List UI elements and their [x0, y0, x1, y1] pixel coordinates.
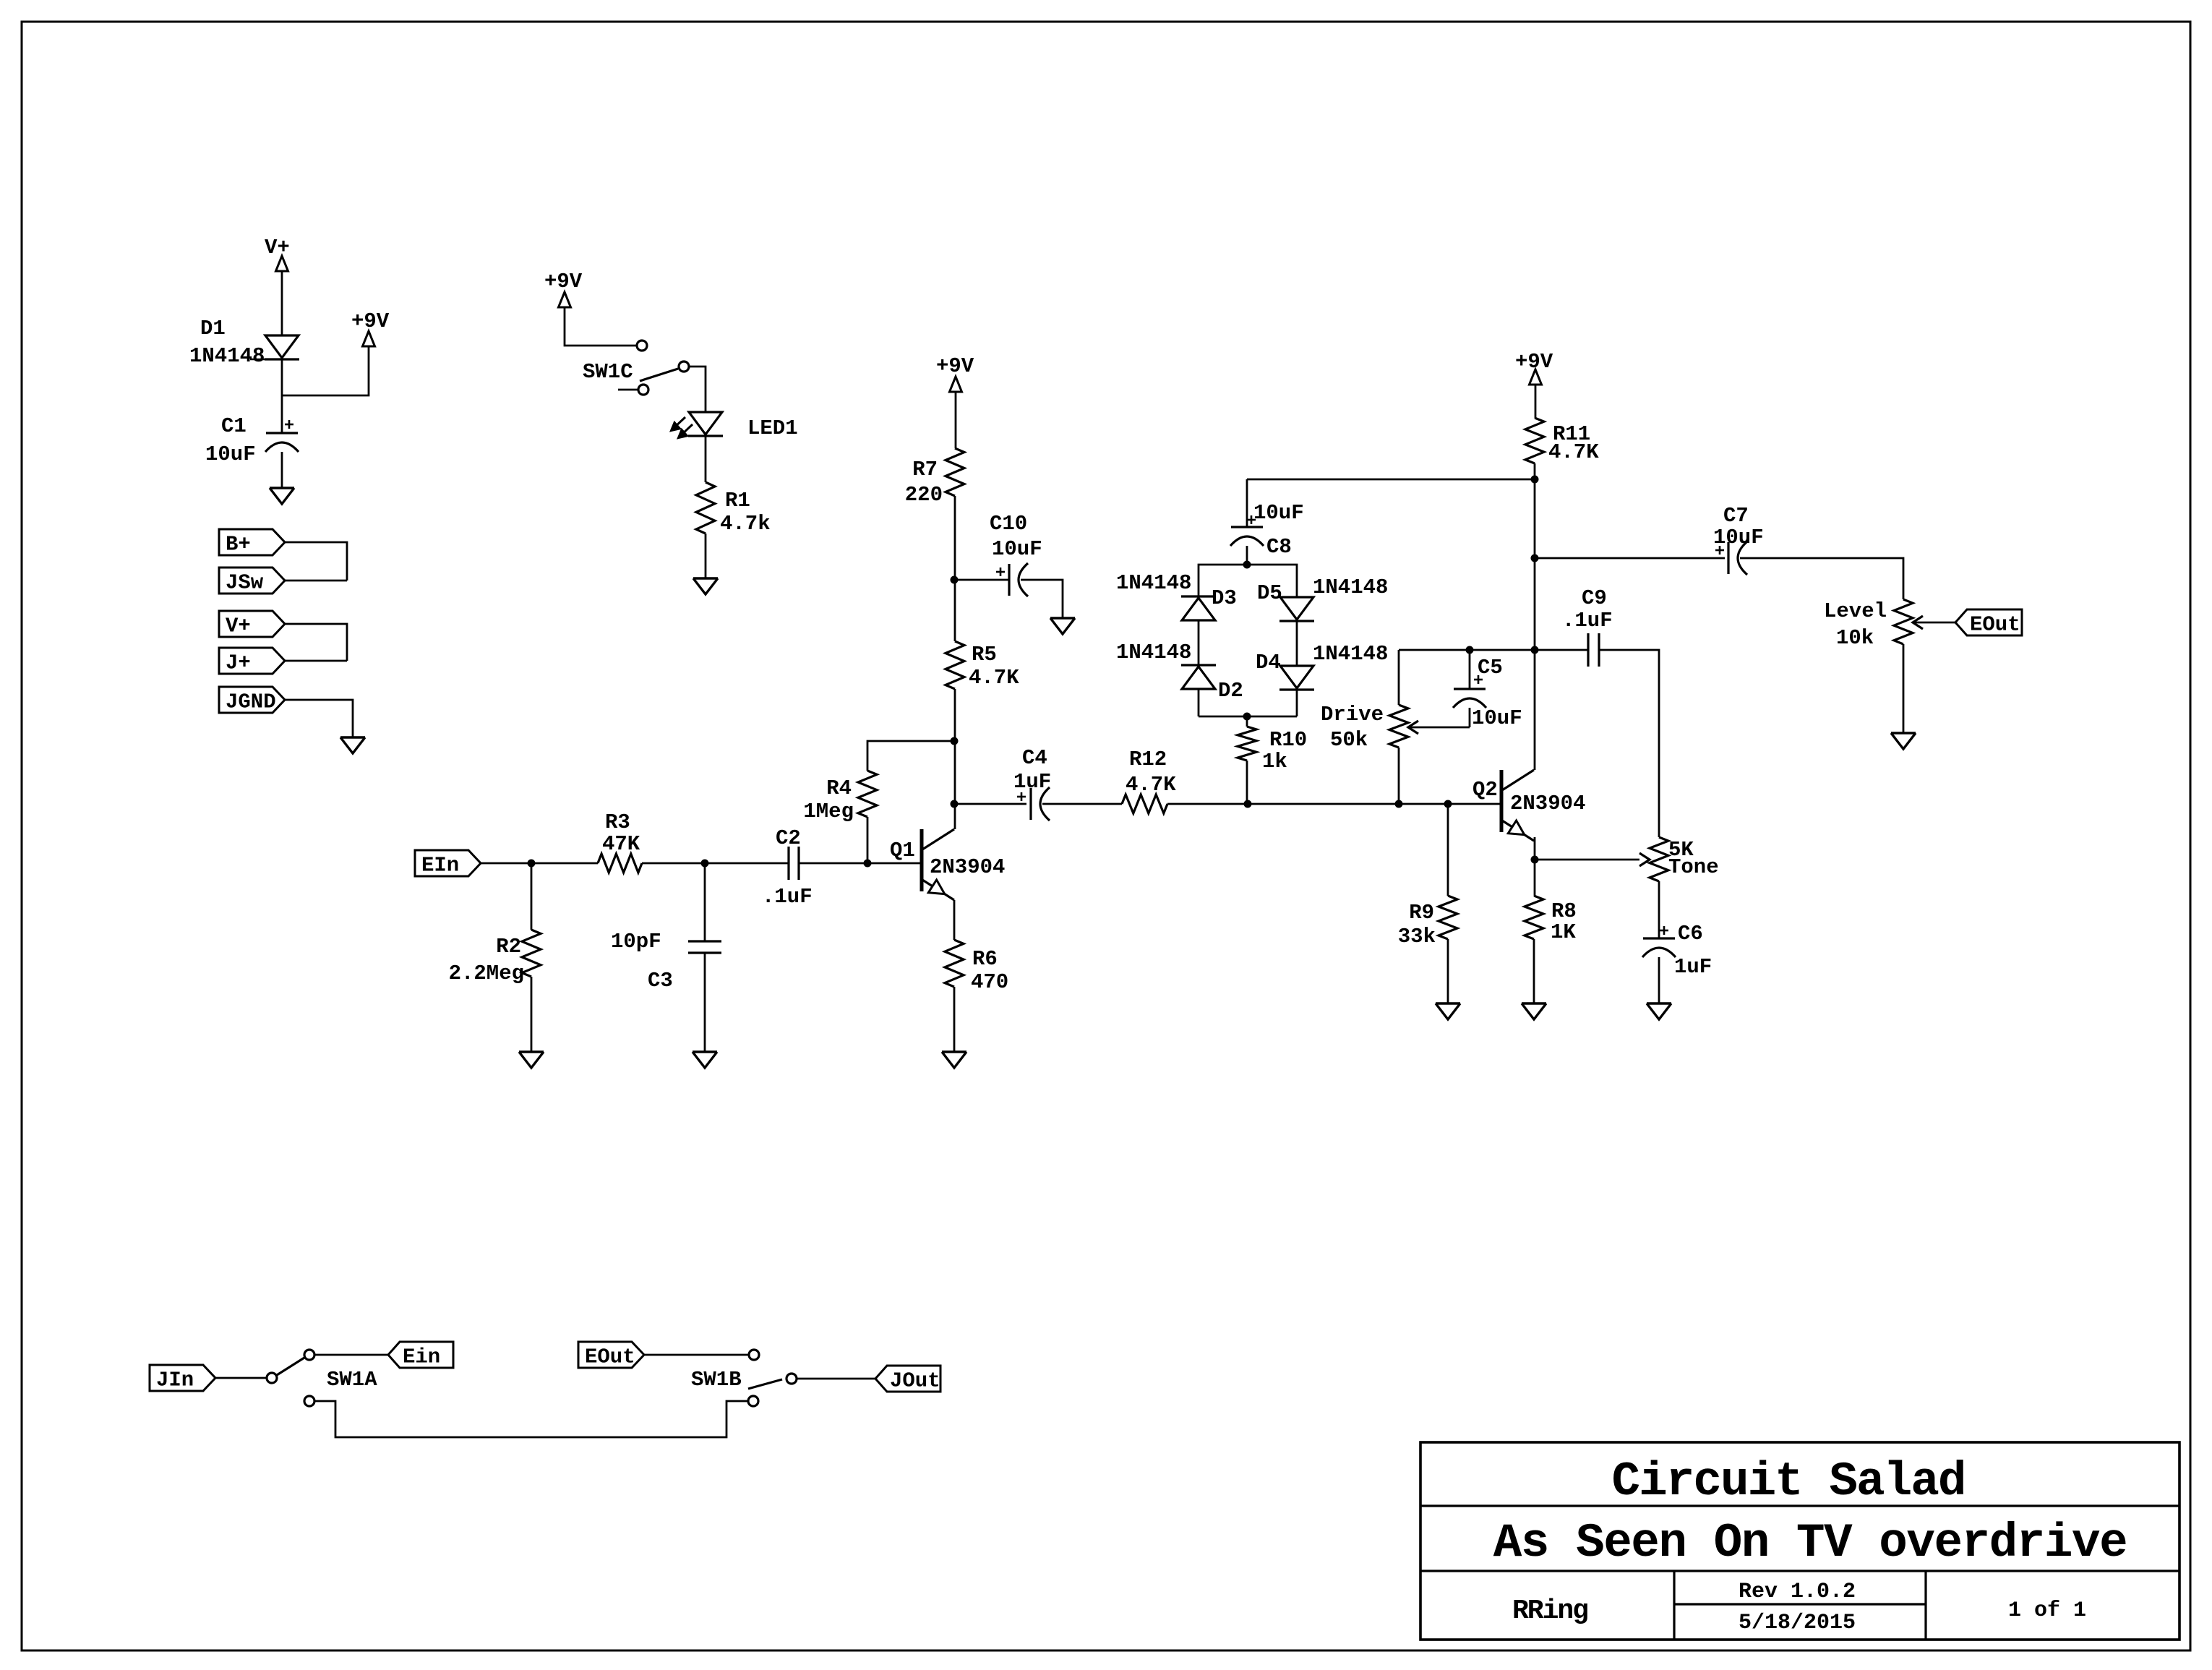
wire	[1199, 716, 1297, 718]
label R10	[1269, 728, 1307, 752]
label R5	[972, 643, 997, 667]
power symbol V+	[265, 236, 290, 271]
junction	[1243, 713, 1251, 721]
svg-text:R7: R7	[912, 458, 938, 481]
wire	[281, 359, 283, 433]
junction	[1444, 800, 1452, 808]
capacitor C3	[688, 941, 721, 953]
wire	[281, 271, 283, 335]
svg-text:1N4148: 1N4148	[189, 344, 265, 368]
wire	[1246, 716, 1248, 727]
capacitor C4	[1017, 787, 1050, 821]
svg-text:10uF: 10uF	[1253, 501, 1304, 525]
net flag B+	[219, 529, 285, 557]
wire	[1469, 650, 1471, 689]
junction	[951, 576, 959, 584]
net flag JIn	[150, 1365, 215, 1392]
svg-text:EIn: EIn	[421, 854, 459, 878]
junction	[1244, 800, 1252, 808]
wire	[1198, 620, 1200, 665]
wire	[799, 862, 922, 865]
junction	[1531, 856, 1539, 864]
junction	[1531, 476, 1539, 484]
label R3 value 47K	[602, 832, 640, 856]
wire	[285, 580, 347, 582]
svg-text:B+: B+	[226, 533, 251, 557]
switch SW1C	[618, 341, 689, 395]
ground	[1522, 1003, 1546, 1019]
resistor R10	[1238, 727, 1256, 761]
resistor R8	[1525, 896, 1543, 939]
svg-text:JGND: JGND	[226, 690, 276, 714]
diode D3	[1181, 596, 1216, 620]
label R1	[725, 489, 750, 513]
wire	[1167, 803, 1248, 805]
svg-text:JSw: JSw	[226, 571, 264, 595]
svg-text:47K: 47K	[602, 832, 640, 856]
wire	[704, 953, 706, 1052]
svg-text:R12: R12	[1129, 748, 1167, 771]
revision Rev 1.0.2	[1739, 1580, 1856, 1604]
wire	[1535, 385, 1537, 418]
wire	[1534, 860, 1536, 896]
net flag EOut	[1955, 609, 2022, 637]
net flag Ein	[388, 1342, 453, 1369]
svg-text:5/18/2015: 5/18/2015	[1739, 1611, 1856, 1635]
label R3	[605, 810, 630, 834]
label C4	[1022, 746, 1047, 770]
label C2 value .1uF	[762, 885, 813, 909]
label Level value 10k	[1836, 626, 1874, 650]
net flag JGND	[219, 687, 285, 714]
svg-text:C6: C6	[1678, 922, 1703, 946]
junction	[701, 860, 709, 868]
wire	[954, 803, 1026, 805]
svg-text:+9V: +9V	[544, 270, 583, 294]
svg-text:+9V: +9V	[351, 309, 390, 333]
svg-text:SW1A: SW1A	[327, 1368, 377, 1392]
label Q1	[890, 839, 915, 862]
wire	[314, 1354, 388, 1356]
wire	[1399, 649, 1535, 651]
junction	[864, 860, 872, 868]
svg-text:C2: C2	[776, 826, 801, 850]
wire	[285, 624, 347, 661]
svg-text:D5: D5	[1257, 581, 1282, 605]
ground	[1436, 1003, 1460, 1019]
wire	[643, 1354, 749, 1356]
LED LED1	[671, 412, 723, 438]
wire	[1658, 881, 1660, 938]
date 5/18/2015	[1739, 1611, 1856, 1635]
wire	[1246, 479, 1248, 527]
wire	[565, 307, 637, 346]
svg-text:10uF: 10uF	[1472, 706, 1522, 730]
label D1	[200, 317, 226, 341]
wire	[1913, 622, 1955, 624]
wire	[705, 534, 707, 578]
wire	[215, 1377, 267, 1379]
net flag V+	[219, 611, 285, 638]
svg-text:RRing: RRing	[1512, 1596, 1587, 1627]
svg-text:470: 470	[971, 970, 1008, 994]
label Drive value 50k	[1330, 728, 1368, 752]
svg-text:C7: C7	[1723, 504, 1749, 528]
wire	[954, 689, 956, 829]
svg-text:1uF: 1uF	[1013, 770, 1051, 794]
svg-text:.1uF: .1uF	[762, 885, 813, 909]
svg-text:R3: R3	[605, 810, 630, 834]
svg-text:4.7K: 4.7K	[969, 666, 1019, 690]
svg-text:D3: D3	[1212, 586, 1237, 610]
wire	[705, 862, 789, 865]
label R9 value 33k	[1398, 925, 1436, 949]
net flag JOut	[875, 1366, 940, 1393]
wire	[867, 817, 869, 863]
wire	[1246, 546, 1248, 565]
svg-text:C4: C4	[1022, 746, 1047, 770]
wire	[1296, 621, 1298, 666]
label R7 value 220	[905, 483, 943, 507]
label R6 value 470	[971, 970, 1008, 994]
label C2	[776, 826, 801, 850]
resistor R1	[696, 482, 715, 534]
label R6	[972, 947, 998, 971]
wire	[282, 346, 369, 395]
label D4 value 1N4148	[1313, 642, 1388, 666]
svg-text:SW1B: SW1B	[691, 1368, 742, 1392]
wire	[531, 977, 533, 1052]
label C7 value 10uF	[1713, 526, 1764, 549]
svg-text:4.7K: 4.7K	[1126, 773, 1176, 797]
svg-text:50k: 50k	[1330, 728, 1368, 752]
wire	[281, 452, 283, 488]
label D3	[1212, 586, 1237, 610]
svg-text:Q2: Q2	[1472, 778, 1498, 802]
wire	[1535, 649, 1588, 651]
resistor R3	[598, 854, 642, 873]
wire	[867, 741, 954, 771]
svg-text:1K: 1K	[1551, 920, 1576, 944]
power symbol +9V	[544, 270, 583, 307]
label R11	[1553, 422, 1590, 446]
svg-text:.1uF: .1uF	[1562, 609, 1613, 633]
wire	[1199, 565, 1297, 597]
capacitor C7	[1715, 541, 1747, 575]
svg-text:10uF: 10uF	[205, 442, 256, 466]
junction	[1243, 561, 1251, 569]
capacitor C10	[996, 563, 1028, 596]
wire	[705, 436, 707, 482]
capacitor C2	[789, 847, 799, 880]
label C9 value .1uF	[1562, 609, 1613, 633]
capacitor C9	[1588, 633, 1599, 667]
label R11 value 4.7K	[1548, 440, 1599, 464]
power symbol +9V	[351, 309, 390, 346]
wire	[1535, 557, 1725, 560]
capacitor C6	[1642, 926, 1676, 957]
wire	[689, 367, 706, 412]
svg-text:4.7K: 4.7K	[1548, 440, 1599, 464]
svg-text:Tone: Tone	[1668, 855, 1719, 879]
transistor Q1	[922, 829, 954, 900]
subtitle text As Seen On TV overdrive	[1493, 1516, 2127, 1570]
wire	[797, 1378, 875, 1380]
svg-text:EOut: EOut	[585, 1345, 635, 1369]
junction	[1531, 554, 1539, 562]
svg-text:Drive: Drive	[1321, 703, 1384, 727]
wire	[1469, 708, 1471, 727]
svg-text:R4: R4	[826, 776, 852, 800]
svg-text:LED1: LED1	[747, 416, 798, 440]
svg-text:1N4148: 1N4148	[1313, 642, 1388, 666]
label C3 value 10pF	[611, 930, 661, 954]
wire	[1296, 690, 1298, 716]
label C10 value 10uF	[992, 537, 1042, 561]
title text Circuit Salad	[1612, 1455, 1965, 1509]
wire	[1246, 761, 1248, 804]
svg-text:1N4148: 1N4148	[1116, 571, 1191, 595]
junction	[528, 860, 536, 868]
title block frame	[1420, 1442, 2179, 1640]
svg-text:D1: D1	[200, 317, 226, 341]
label R7	[912, 458, 938, 481]
resistor R9	[1439, 896, 1457, 939]
capacitor C5	[1453, 675, 1486, 708]
svg-text:33k: 33k	[1398, 925, 1436, 949]
author RRing	[1512, 1596, 1587, 1627]
svg-text:2N3904: 2N3904	[1510, 792, 1585, 815]
label C8 value 10uF	[1253, 501, 1304, 525]
wire	[953, 900, 956, 940]
ground	[340, 737, 365, 753]
wire	[953, 987, 956, 1052]
junction	[1466, 646, 1474, 654]
label R2	[496, 935, 521, 959]
wire	[1399, 803, 1501, 805]
label D5 value 1N4148	[1313, 575, 1388, 599]
wire	[531, 863, 533, 930]
svg-text:C3: C3	[648, 969, 673, 993]
svg-text:10pF: 10pF	[611, 930, 661, 954]
label Drive	[1321, 703, 1384, 727]
wire	[1248, 803, 1399, 805]
svg-text:C1: C1	[221, 414, 247, 438]
label D1 value 1N4148	[189, 344, 265, 368]
label R8	[1551, 899, 1577, 923]
transistor Q2	[1501, 770, 1534, 841]
label C10	[990, 512, 1027, 536]
resistor R11	[1525, 418, 1544, 463]
wire	[1658, 957, 1660, 1003]
svg-text:1N4148: 1N4148	[1116, 641, 1191, 664]
potentiometer Drive 50k	[1389, 650, 1470, 804]
wire	[480, 862, 531, 865]
svg-text:1uF: 1uF	[1674, 955, 1712, 979]
wire	[1042, 803, 1122, 805]
label C4 value 1uF	[1013, 770, 1051, 794]
wire	[314, 1401, 748, 1437]
svg-text:+9V: +9V	[936, 354, 974, 378]
label C7	[1723, 504, 1749, 528]
resistor R4	[858, 771, 877, 817]
svg-text:220: 220	[905, 483, 943, 507]
label C5 value 10uF	[1472, 706, 1522, 730]
switch SW1A	[267, 1350, 314, 1406]
diode D4	[1279, 666, 1314, 690]
wire	[1534, 837, 1536, 860]
label R9	[1409, 901, 1434, 925]
wire	[1903, 644, 1905, 733]
ground	[1891, 733, 1916, 749]
power symbol +9V	[936, 354, 974, 392]
label Tone	[1668, 855, 1719, 879]
svg-text:10uF: 10uF	[992, 537, 1042, 561]
label R1 value 4.7k	[720, 512, 771, 536]
capacitor C1	[265, 420, 299, 452]
net flag EIn	[415, 850, 481, 878]
junction	[951, 737, 959, 745]
svg-text:R1: R1	[725, 489, 750, 513]
svg-text:1N4148: 1N4148	[1313, 575, 1388, 599]
wire	[531, 862, 598, 865]
resistor R7	[946, 448, 964, 496]
junction	[1531, 646, 1539, 654]
wire	[285, 660, 347, 662]
label C9	[1582, 586, 1607, 610]
resistor R5	[946, 641, 964, 689]
svg-text:4.7k: 4.7k	[720, 512, 771, 536]
resistor R12	[1122, 795, 1167, 813]
wire	[285, 700, 353, 737]
svg-text:C10: C10	[990, 512, 1027, 536]
label D4	[1256, 651, 1281, 675]
svg-text:2.2Meg: 2.2Meg	[449, 962, 524, 985]
ground	[519, 1052, 544, 1068]
ground	[693, 1052, 717, 1068]
label R12	[1129, 748, 1167, 771]
label R10 value 1k	[1262, 750, 1287, 774]
svg-text:JOut: JOut	[890, 1369, 940, 1393]
label R8 value 1K	[1551, 920, 1576, 944]
svg-text:1Meg: 1Meg	[803, 800, 854, 823]
label Q2 value 2N3904	[1510, 792, 1585, 815]
wire	[1533, 939, 1535, 1003]
label D3 value 1N4148	[1116, 571, 1191, 595]
svg-text:R6: R6	[972, 947, 998, 971]
svg-text:SW1C: SW1C	[583, 360, 633, 384]
diode D2	[1181, 665, 1216, 689]
ground	[1647, 1003, 1671, 1019]
svg-text:C5: C5	[1478, 656, 1503, 680]
label Tone value 5K	[1668, 838, 1694, 862]
label Q1 value 2N3904	[930, 855, 1005, 879]
svg-text:As Seen On TV overdrive: As Seen On TV overdrive	[1493, 1516, 2127, 1570]
svg-text:R5: R5	[972, 643, 997, 667]
label D2 value 1N4148	[1116, 641, 1191, 664]
sheet 1 of 1	[2008, 1598, 2086, 1623]
label D5	[1257, 581, 1282, 605]
svg-text:1 of 1: 1 of 1	[2008, 1598, 2086, 1623]
svg-text:V+: V+	[265, 236, 290, 260]
svg-text:Q1: Q1	[890, 839, 915, 862]
label R12 value 4.7K	[1126, 773, 1176, 797]
label Level	[1824, 599, 1887, 623]
wire	[955, 392, 957, 448]
wire	[704, 863, 706, 941]
svg-text:V+: V+	[226, 615, 251, 638]
wire	[1447, 804, 1449, 896]
svg-text:C8: C8	[1266, 535, 1292, 559]
junction	[951, 800, 959, 808]
label D2	[1218, 679, 1243, 703]
wire	[1021, 580, 1063, 618]
potentiometer Tone 5K	[1639, 837, 1668, 881]
label C5	[1478, 656, 1503, 680]
capacitor C8	[1230, 515, 1264, 546]
svg-text:Level: Level	[1824, 599, 1887, 623]
ground	[270, 488, 294, 504]
switch SW1B	[748, 1350, 797, 1406]
wire	[1447, 939, 1449, 1003]
ground	[1050, 618, 1075, 634]
svg-text:JIn: JIn	[156, 1369, 194, 1392]
label R4	[826, 776, 852, 800]
diode D1	[250, 335, 299, 359]
label C3	[648, 969, 673, 993]
wire C8 to R11 node	[1247, 479, 1535, 481]
label C6	[1678, 922, 1703, 946]
label SW1A	[327, 1368, 377, 1392]
wire	[1534, 463, 1536, 770]
svg-text:+9V: +9V	[1515, 350, 1553, 374]
junction	[1395, 800, 1403, 808]
ground	[693, 578, 718, 594]
resistor R6	[945, 940, 964, 987]
label SW1B	[691, 1368, 742, 1392]
resistor R2	[522, 930, 541, 977]
wire	[1599, 650, 1659, 837]
label Q2	[1472, 778, 1498, 802]
diode D5	[1279, 597, 1314, 621]
svg-text:R10: R10	[1269, 728, 1307, 752]
label C1 value 10uF	[205, 442, 256, 466]
svg-text:D2: D2	[1218, 679, 1243, 703]
net flag JSw	[219, 568, 285, 595]
wire	[954, 579, 1009, 581]
ground	[942, 1052, 966, 1068]
label R5 value 4.7K	[969, 666, 1019, 690]
svg-text:1k: 1k	[1262, 750, 1287, 774]
label R2 value 2.2Meg	[449, 962, 524, 985]
wire	[954, 496, 956, 641]
wire	[285, 542, 347, 581]
potentiometer Level 10k	[1894, 599, 1923, 644]
svg-text:10k: 10k	[1836, 626, 1874, 650]
svg-text:EOut: EOut	[1970, 613, 2020, 637]
net flag J+	[219, 648, 285, 675]
label SW1C	[583, 360, 633, 384]
svg-text:D4: D4	[1256, 651, 1281, 675]
svg-text:Rev 1.0.2: Rev 1.0.2	[1739, 1580, 1856, 1604]
label C6 value 1uF	[1674, 955, 1712, 979]
svg-text:Circuit Salad: Circuit Salad	[1612, 1455, 1965, 1509]
wire	[1535, 859, 1639, 861]
svg-text:C9: C9	[1582, 586, 1607, 610]
svg-text:R2: R2	[496, 935, 521, 959]
label C1	[221, 414, 247, 438]
wire	[642, 862, 705, 865]
